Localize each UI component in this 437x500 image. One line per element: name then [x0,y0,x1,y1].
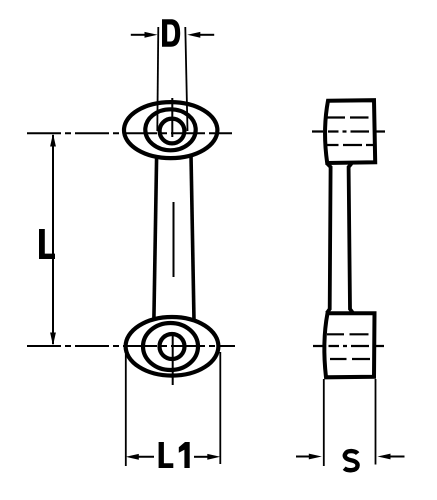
bottom block hidden hole line lower [330,358,370,360]
top eye horizontal centerline (L extension) [27,132,232,134]
bottom eye boss oval [143,323,198,370]
D extension line left [157,27,158,131]
label s [344,451,357,470]
s extension line left [323,379,325,466]
L arrow down [50,333,56,346]
s dimension line right with arrow [378,454,405,460]
top eye vertical centerline [171,98,173,137]
top block outline [325,100,375,163]
bottom eye vertical centerline [172,332,174,385]
bottom block centerline [313,345,384,347]
bottom eye horizontal centerline (L extension) [27,345,235,347]
bottom block outline [324,313,374,377]
top eye hole circle [160,119,185,144]
s extension line right [375,379,377,465]
shaft left edge [154,157,157,319]
D extension line right [185,27,187,131]
L1 extension line right [219,352,221,464]
L1 dimension line left with arrow [126,454,154,460]
L1 dimension line right with arrow [194,454,220,460]
D dimension line left with arrow [131,32,158,38]
web bar left edge [327,164,331,314]
D dimension line right with arrow [187,32,214,38]
L1 extension line left [125,354,127,466]
L arrow up [50,134,56,147]
shaft centerline dash [173,202,175,277]
top block centerline [312,130,385,132]
label L [39,229,55,259]
s dimension line left with arrow [296,454,322,460]
bottom eye outer ellipse [126,317,219,376]
bottom eye hole circle [160,334,185,359]
web bar right edge [349,164,353,314]
bottom block hidden hole line upper [327,333,369,335]
L dimension line [52,135,54,344]
shaft right edge [191,155,194,321]
top eye boss oval [145,109,195,150]
label L1 [159,442,174,468]
label D [162,19,180,46]
top block hidden hole line upper [327,116,369,118]
top eye outer ellipse [124,102,217,158]
top block hidden hole line lower [327,144,374,146]
